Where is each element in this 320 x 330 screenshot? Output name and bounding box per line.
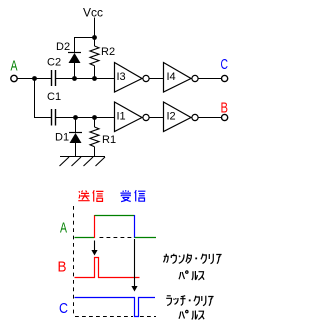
terminal B <box>222 114 228 120</box>
inverter I4 <box>164 63 199 93</box>
wire D1 top lead <box>75 118 77 133</box>
waveform A low before <box>75 237 95 239</box>
label pulse katakana line2 (latch) <box>179 310 204 319</box>
dashed C low level right <box>140 316 156 318</box>
dashed low level during pulse <box>100 237 135 239</box>
svg-text:C1: C1 <box>47 91 61 103</box>
svg-text:R2: R2 <box>101 46 115 58</box>
node R1 top <box>92 115 97 120</box>
waveform A falling edge <box>134 215 136 238</box>
svg-text:C2: C2 <box>47 57 61 69</box>
svg-text:Vcc: Vcc <box>83 6 103 20</box>
svg-text:D2: D2 <box>56 41 70 53</box>
svg-text:A: A <box>60 220 67 237</box>
node branch junction <box>32 76 37 81</box>
svg-text:I3: I3 <box>117 71 126 83</box>
wire C2 to I3 <box>56 78 115 80</box>
diode D2 <box>68 53 81 64</box>
resistor R2 <box>90 46 99 66</box>
node R2 bottom <box>92 76 97 81</box>
label jushin (receive) blue kanji <box>120 190 131 202</box>
waveform A rising edge <box>94 215 96 238</box>
svg-text:I1: I1 <box>117 111 126 123</box>
wire R1 to ground <box>94 147 96 157</box>
wire Vcc vertical <box>94 18 96 47</box>
node D2 bottom <box>72 76 77 81</box>
wire R2 to main <box>94 66 96 79</box>
svg-text:R1: R1 <box>102 134 116 146</box>
node D1 top <box>73 115 78 120</box>
waveform A low after <box>135 237 157 239</box>
svg-text:D1: D1 <box>55 132 69 144</box>
node Vcc junction <box>92 35 97 40</box>
inverter I2 <box>164 102 199 132</box>
wire I2 to B terminal <box>198 117 221 119</box>
wire C1 to I1 <box>56 117 115 119</box>
dashed C low level left <box>75 316 133 318</box>
capacitor C1 <box>52 109 56 126</box>
label pulse katakana line2 <box>179 271 204 280</box>
arrow to B pulse <box>91 241 97 256</box>
svg-text:C: C <box>221 56 229 73</box>
waveform C trace <box>75 298 156 317</box>
label soushin (send) red kanji <box>78 191 89 201</box>
wire A to C2 <box>17 78 51 80</box>
waveform A high <box>95 215 135 217</box>
terminal C <box>222 75 228 81</box>
label counter-clear katakana line1 <box>164 254 222 264</box>
svg-text:A: A <box>11 58 18 75</box>
svg-text:C: C <box>59 300 68 317</box>
diode D1 <box>69 133 82 144</box>
svg-text:B: B <box>58 259 67 276</box>
inverter I1 <box>115 102 150 132</box>
wire R1 top lead <box>94 118 96 128</box>
wire I3 to I4 <box>149 78 163 80</box>
wire I4 to C terminal <box>198 78 221 80</box>
inverter I3 <box>115 63 150 93</box>
wire D1 to ground <box>75 143 77 157</box>
terminal A <box>11 75 17 81</box>
wire I1 to I2 <box>149 117 163 119</box>
dashed time marker <box>73 206 75 317</box>
svg-text:B: B <box>221 100 229 117</box>
wire D2 to main <box>74 63 76 79</box>
svg-text:I4: I4 <box>167 71 176 83</box>
arrow to C pulse <box>131 239 137 292</box>
ground <box>60 157 106 167</box>
svg-text:I2: I2 <box>167 111 176 123</box>
capacitor C2 <box>52 70 56 86</box>
resistor R1 <box>90 127 99 147</box>
label latch-clear katakana line1 <box>166 296 213 306</box>
wire branch down <box>35 79 52 118</box>
waveform B trace <box>75 258 140 278</box>
wire D2 branch <box>75 38 95 53</box>
